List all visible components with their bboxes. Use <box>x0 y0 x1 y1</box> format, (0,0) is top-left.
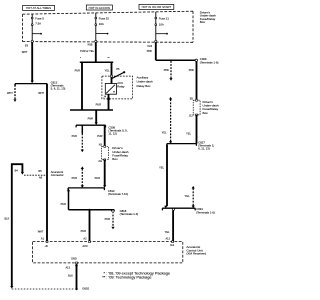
svg-text:10A: 10A <box>159 23 164 27</box>
svg-text:PNK: PNK <box>164 68 170 72</box>
svg-text:(Terminals 7-10): (Terminals 7-10) <box>108 192 128 196</box>
svg-text:G602: G602 <box>82 287 89 291</box>
svg-text:PUR: PUR <box>72 134 78 138</box>
svg-text:PUR: PUR <box>105 217 111 221</box>
svg-text:(XM Receiver): (XM Receiver) <box>186 252 206 256</box>
svg-text:Fuse 21: Fuse 21 <box>159 17 170 21</box>
svg-text:PUR: PUR <box>95 176 101 180</box>
svg-text:WHT: WHT <box>38 91 44 95</box>
svg-text:BLK: BLK <box>68 274 73 278</box>
svg-text:YEL: YEL <box>162 130 167 134</box>
svg-text:PUR: PUR <box>61 202 67 206</box>
svg-text:PUR: PUR <box>75 68 81 72</box>
svg-text:Fuse 32: Fuse 32 <box>99 17 110 21</box>
svg-text:HOT IN ON OR START: HOT IN ON OR START <box>142 5 172 9</box>
svg-text:H5: H5 <box>116 67 120 71</box>
svg-text:N3: N3 <box>99 143 103 147</box>
svg-text:K24: K24 <box>147 44 152 48</box>
svg-text:J11: J11 <box>98 159 103 163</box>
svg-text:Fuse 5: Fuse 5 <box>35 16 44 20</box>
svg-text:Relay Box: Relay Box <box>137 84 152 88</box>
svg-text:Under-dash: Under-dash <box>137 80 153 84</box>
svg-text:** : '09: Technology Package: ** : '09: Technology Package <box>102 275 151 280</box>
svg-text:10A: 10A <box>99 22 104 26</box>
svg-text:A13: A13 <box>65 266 70 270</box>
svg-text:*: * <box>91 117 92 121</box>
svg-text:PNK: PNK <box>147 49 153 53</box>
svg-text:ACC: ACC <box>83 244 89 248</box>
svg-text:J12: J12 <box>189 114 194 118</box>
svg-text:Connector: Connector <box>51 173 64 177</box>
svg-text:11, 12): 11, 12) <box>108 131 117 135</box>
svg-text:Relay: Relay <box>117 84 125 88</box>
svg-text:YEL: YEL <box>159 165 164 169</box>
svg-text:(Terminals 1-3): (Terminals 1-3) <box>120 212 139 216</box>
svg-text:(Terminals 1-6): (Terminals 1-6) <box>200 60 219 64</box>
svg-text:WHT: WHT <box>7 91 13 95</box>
svg-text:HOT IN ACC/ON: HOT IN ACC/ON <box>89 6 110 10</box>
svg-text:7.5A: 7.5A <box>35 21 41 25</box>
svg-text:PUR: PUR <box>81 229 87 233</box>
svg-text:GND: GND <box>71 257 77 261</box>
svg-text:Box: Box <box>203 111 209 115</box>
svg-text:PUR: PUR <box>96 102 102 106</box>
svg-text:5, 6, 11, 13): 5, 6, 11, 13) <box>51 86 66 90</box>
svg-text:HOT AT ALL TIMES: HOT AT ALL TIMES <box>26 6 51 10</box>
svg-text:YEL: YEL <box>105 68 110 72</box>
svg-text:YEL: YEL <box>165 230 170 234</box>
svg-text:Box: Box <box>112 157 118 161</box>
svg-text:YEL: YEL <box>186 132 191 136</box>
svg-text:WHT: WHT <box>22 50 28 54</box>
svg-text:PUR: PUR <box>72 176 78 180</box>
svg-text:K6B: K6B <box>88 43 93 47</box>
svg-text:Box: Box <box>200 20 206 24</box>
svg-text:Auxiliary: Auxiliary <box>137 75 149 79</box>
svg-text:5D: 5D <box>190 97 193 101</box>
svg-text:YEL: YEL <box>185 194 190 198</box>
svg-text:(Terminals 1-6): (Terminals 1-6) <box>196 210 215 214</box>
svg-text:BLK: BLK <box>4 217 9 221</box>
svg-text:*: * <box>80 56 81 60</box>
svg-text:IG1: IG1 <box>170 243 175 247</box>
svg-text:+B: +B <box>45 244 48 248</box>
svg-text:WHT: WHT <box>38 230 44 234</box>
svg-text:PUR: PUR <box>97 134 103 138</box>
svg-text:PUR or YEL: PUR or YEL <box>80 49 94 53</box>
svg-text:**: ** <box>108 56 110 60</box>
svg-text:6, 11, 13): 6, 11, 13) <box>198 146 210 150</box>
svg-text:PNK: PNK <box>189 68 195 72</box>
svg-text:A12: A12 <box>165 236 170 240</box>
